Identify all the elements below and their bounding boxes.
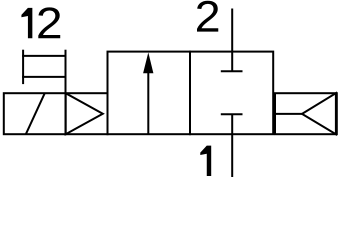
pilot channel right vertical line — [65, 50, 67, 94]
pilot amplifier triangle — [66, 93, 103, 134]
pilot amplifier box — [66, 93, 108, 134]
pilot port label 12 — [21, 7, 60, 38]
solenoid coil diagonal stroke — [26, 93, 45, 134]
pilot channel left vertical line — [22, 50, 24, 84]
return pilot horizontal line — [274, 113, 302, 115]
port 1 blocked seat bar — [221, 113, 243, 115]
port label 1 — [200, 146, 211, 176]
valve body left square (actuated position) — [108, 52, 191, 135]
pilot channel lower horizontal line — [22, 76, 66, 78]
port 2 line — [231, 9, 233, 72]
valve body right square (rest position) — [190, 52, 273, 135]
solenoid coil box — [4, 93, 66, 134]
port 2 blocked seat bar — [221, 70, 243, 72]
return spring box — [275, 93, 337, 134]
flow path arrowhead — [143, 52, 153, 73]
flow path arrow shaft — [147, 71, 149, 134]
pilot channel upper horizontal line — [22, 55, 66, 57]
return pilot triangle — [302, 93, 336, 134]
port 1 line — [231, 114, 233, 177]
port label 2 — [197, 1, 218, 32]
